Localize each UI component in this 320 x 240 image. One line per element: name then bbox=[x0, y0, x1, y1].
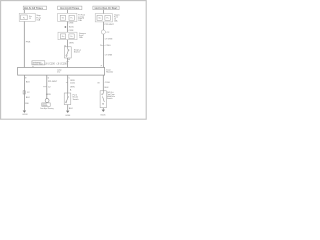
wire bbox=[102, 22, 104, 30]
wire (bottom right) bbox=[102, 75, 104, 91]
svg-text:Drvr: Drvr bbox=[57, 72, 61, 74]
svg-text:G105: G105 bbox=[100, 114, 106, 116]
connector tick C100 bbox=[66, 82, 68, 84]
wire bbox=[23, 10, 25, 14]
fuse inner box left bbox=[60, 34, 65, 39]
svg-text:C100: C100 bbox=[70, 83, 76, 85]
svg-text:LT GRN: LT GRN bbox=[105, 38, 113, 40]
svg-text:Hot In Run Or Start: Hot In Run Or Start bbox=[95, 7, 118, 10]
svg-text:Hot At All Times: Hot At All Times bbox=[24, 7, 44, 10]
svg-text:G103: G103 bbox=[22, 114, 28, 116]
page background bbox=[0, 0, 1, 1]
svg-text:ORN: ORN bbox=[69, 30, 74, 32]
svg-text:Fu: Fu bbox=[23, 17, 25, 19]
svg-text:15A: 15A bbox=[36, 19, 40, 22]
splice dot S205 bbox=[65, 26, 67, 28]
svg-text:ORN: ORN bbox=[69, 22, 74, 24]
buzzer symbol (circle) bbox=[45, 99, 49, 103]
fuse block box A bbox=[19, 13, 35, 21]
connector C200 tick bbox=[102, 44, 104, 46]
svg-text:Switch: Switch bbox=[74, 51, 81, 54]
banner: HOT IN RUN (right) bbox=[93, 6, 119, 10]
svg-text:Module: Module bbox=[106, 71, 114, 73]
fuse inner box right bbox=[69, 15, 74, 20]
ground G104 bbox=[66, 111, 69, 113]
ground G103 bbox=[23, 111, 26, 113]
svg-text:Hot At All Times: Hot At All Times bbox=[60, 7, 80, 10]
fuse block box B2 bbox=[58, 32, 77, 40]
svg-text:LT GRN: LT GRN bbox=[105, 55, 113, 57]
inline connector circle bbox=[101, 30, 105, 34]
banner: HOT AT ALL TIMES (left) bbox=[23, 6, 46, 10]
connector label box: instrument cluster bbox=[32, 61, 45, 66]
svg-text:G104: G104 bbox=[65, 115, 71, 117]
fuse inner box left bbox=[97, 15, 102, 20]
connector tick C2 bbox=[43, 86, 47, 88]
switch: stop lamp switch bbox=[64, 47, 71, 58]
svg-text:Fu: Fu bbox=[107, 17, 109, 19]
switch: top prop switch bbox=[100, 91, 106, 108]
svg-text:ORN: ORN bbox=[70, 86, 75, 88]
wire ORN bbox=[67, 22, 69, 33]
svg-text:Cluster Mod: Cluster Mod bbox=[32, 63, 42, 66]
fuse inner box left bbox=[60, 15, 65, 20]
inline connector box bbox=[23, 91, 25, 94]
svg-text:M: M bbox=[98, 82, 100, 84]
svg-text:PPL/WHT: PPL/WHT bbox=[48, 81, 58, 83]
svg-text:ORN: ORN bbox=[46, 94, 51, 96]
svg-text:BLK: BLK bbox=[26, 97, 31, 99]
banner: HOT AT ALL TIMES (middle) bbox=[58, 6, 82, 10]
wire ORN bbox=[67, 40, 69, 47]
wire bbox=[102, 10, 104, 14]
fuse inner box right bbox=[105, 15, 110, 20]
svg-text:Ga: Ga bbox=[62, 36, 64, 38]
svg-text:(.8 | C100: (.8 | C100 bbox=[45, 63, 56, 65]
wire BLK bbox=[67, 105, 69, 111]
buzzer label box bbox=[42, 103, 50, 106]
wire LT GRN bbox=[102, 34, 104, 67]
svg-text:BLK: BLK bbox=[26, 81, 31, 83]
fuse block box B1 bbox=[58, 13, 77, 21]
pin tick bbox=[32, 66, 34, 68]
svg-text:(.8 | C100: (.8 | C100 bbox=[57, 63, 68, 65]
wire PPL/WHT (second) bbox=[46, 75, 48, 98]
svg-text:15: 15 bbox=[29, 18, 31, 20]
svg-text:ORN: ORN bbox=[70, 80, 75, 82]
wire ORN (third) bbox=[67, 75, 69, 93]
svg-text:Ga: Ga bbox=[98, 17, 100, 19]
connector tick on wire bbox=[66, 60, 68, 62]
border frame bbox=[1, 1, 147, 120]
wire PNK bbox=[23, 22, 25, 68]
svg-text:Trn: Trn bbox=[61, 17, 64, 19]
svg-text:Switch: Switch bbox=[73, 98, 80, 101]
svg-text:PPL/WHT: PPL/WHT bbox=[105, 24, 115, 26]
wire bbox=[67, 10, 69, 14]
svg-text:Switch: Switch bbox=[107, 97, 113, 100]
wire bbox=[67, 58, 69, 68]
svg-text:Fu: Fu bbox=[70, 36, 72, 38]
svg-text:ORN: ORN bbox=[69, 42, 74, 44]
svg-text:BLK: BLK bbox=[105, 87, 110, 89]
fuse inner box right bbox=[69, 34, 74, 39]
svg-text:C206: C206 bbox=[105, 82, 111, 84]
module box (wide) bbox=[18, 67, 105, 75]
svg-text:S205: S205 bbox=[69, 26, 75, 28]
wire BLK (bottom left) bbox=[23, 75, 25, 110]
svg-text:Fu: Fu bbox=[71, 17, 73, 19]
wire bbox=[102, 108, 104, 110]
svg-text:C200: C200 bbox=[105, 45, 111, 47]
fuse block box C1 bbox=[95, 14, 112, 22]
svg-text:BLK: BLK bbox=[69, 108, 74, 110]
svg-text:Module: Module bbox=[42, 105, 47, 107]
svg-text:PNK: PNK bbox=[26, 42, 31, 44]
ground G105 bbox=[102, 110, 105, 112]
switch: park brake switch bbox=[64, 93, 71, 105]
fuse F (inner box) bbox=[21, 15, 28, 20]
